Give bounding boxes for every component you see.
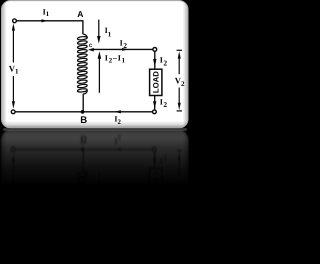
wire from A down to coil bbox=[82, 20, 84, 34]
V2 top tick bbox=[177, 49, 182, 51]
arrow V1 up (top) bbox=[12, 23, 15, 30]
svg-text:A: A bbox=[77, 9, 83, 19]
svg-text:C: C bbox=[89, 43, 93, 49]
wire top horizontal bbox=[16, 20, 83, 22]
svg-text:B: B bbox=[80, 115, 87, 126]
svg-text:LOAD: LOAD bbox=[151, 71, 160, 93]
arrow V1 down (bottom) bbox=[12, 101, 15, 108]
V2 line bbox=[178, 56, 180, 105]
terminal bottom-right bbox=[153, 110, 157, 114]
arrow I1 on top wire bbox=[41, 19, 48, 22]
inductor winding A-B bbox=[77, 34, 87, 94]
V2 bottom tick bbox=[177, 110, 182, 112]
LOAD box bbox=[150, 69, 162, 95]
arrow I2-I1 upward bbox=[98, 51, 102, 93]
terminal top-right bbox=[153, 48, 157, 52]
wire tap to right terminal bbox=[92, 48, 153, 50]
reflection of card bbox=[2, 130, 189, 264]
V1 line bbox=[12, 28, 14, 104]
arrow I2 on tap wire bbox=[122, 48, 129, 51]
wire bottom horizontal bbox=[15, 111, 153, 113]
card background bbox=[2, 1, 189, 129]
reflection seam strip bbox=[3, 128, 187, 131]
terminal bottom-left bbox=[11, 110, 15, 114]
arrow V2 down bbox=[178, 103, 181, 110]
arrow V2 up bbox=[178, 51, 181, 58]
arrow I2 on bottom wire bbox=[114, 110, 121, 113]
tap arrow at C bbox=[88, 48, 94, 52]
wire right terminal down to load bbox=[154, 51, 156, 69]
wire coil bottom to node B bbox=[82, 94, 84, 111]
arrow I2 below load bbox=[153, 101, 156, 109]
terminal top-left bbox=[13, 19, 17, 23]
arrow I1 downward beside coil bbox=[97, 20, 101, 44]
wire load bottom to right bottom terminal bbox=[154, 96, 156, 111]
arrow I2 into load (top) bbox=[153, 59, 156, 67]
junction node B dot bbox=[81, 110, 85, 114]
